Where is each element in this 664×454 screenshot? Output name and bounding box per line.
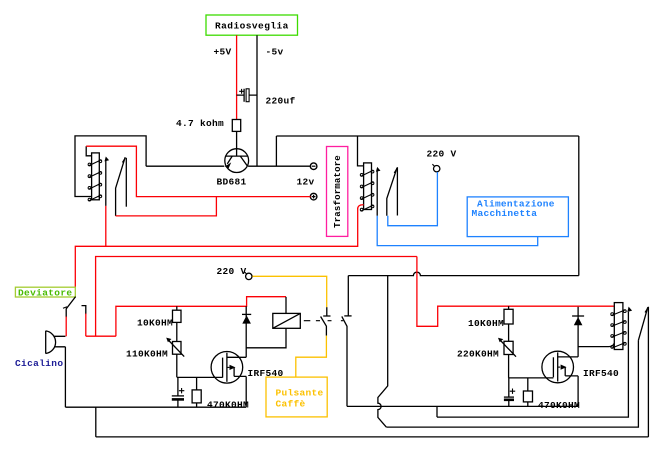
relay RL1 coil (top left) — [86, 146, 102, 201]
svg-text:IRF540: IRF540 — [583, 368, 619, 379]
wire blue contact to Alimentazione box — [377, 216, 538, 246]
relay RL3 contact arrow — [627, 307, 632, 312]
box Alimentazione Macchinetta — [467, 197, 568, 237]
svg-text:10K0HM: 10K0HM — [468, 318, 504, 329]
svg-text:220K0HM: 220K0HM — [457, 348, 499, 359]
wire relay coil left loop — [75, 136, 146, 197]
wire big box bottom edge with hop — [348, 272, 579, 276]
terminal minus 12v — [310, 163, 317, 170]
wire +5V red vertical — [236, 35, 238, 119]
svg-text:220uf: 220uf — [266, 96, 296, 107]
relay RL1 switch throw — [125, 158, 127, 207]
wire blue switch arm to 220V terminal — [388, 172, 438, 226]
svg-text:470K0HM: 470K0HM — [538, 400, 580, 411]
wire red relay common down — [105, 206, 107, 246]
wire bus2 to right relay arm — [386, 340, 638, 427]
potentiometer R3 110K0HM — [166, 338, 184, 378]
transistor Q1 BD681 — [225, 149, 249, 173]
relay RL3 coil right — [611, 303, 626, 350]
linkage dashed relay to contacts — [304, 320, 344, 322]
deviatore switch arm — [63, 297, 76, 318]
svg-text:10K0HM: 10K0HM — [137, 318, 173, 329]
wire red node rail y336 — [86, 335, 116, 337]
svg-text:Trasformatore: Trasformatore — [333, 155, 343, 228]
wire yellow 220V to switch SW1 — [252, 276, 326, 307]
box Deviatore — [15, 287, 75, 298]
wire drain riser left — [245, 306, 247, 357]
wire big box right edge — [578, 136, 580, 276]
wire gate rail left — [177, 376, 223, 378]
wire red transformer coil exit — [358, 205, 364, 209]
terminal 220V top — [432, 164, 440, 172]
buzzer Cicalino — [46, 331, 66, 354]
wire bottom bus — [96, 436, 649, 438]
svg-text:12v: 12v — [297, 177, 315, 188]
svg-text:Radiosveglia: Radiosveglia — [215, 21, 289, 32]
wire red mains rail upper — [75, 208, 357, 288]
resistor R2 10K0HM left — [173, 306, 182, 341]
transformer contact arrow — [376, 167, 381, 216]
resistor R4 470K0HM left — [192, 377, 201, 407]
svg-text:Pulsante: Pulsante — [276, 387, 324, 398]
wire right ground rail A — [347, 405, 578, 407]
resistor R5 10K0HM right — [504, 306, 513, 341]
box Radiosveglia — [206, 15, 298, 35]
wire red deviatore arm to buzzer — [65, 317, 67, 337]
relay RL3 switch arm — [638, 307, 647, 340]
svg-text:110K0HM: 110K0HM — [126, 348, 168, 359]
svg-text:+5V: +5V — [214, 47, 232, 58]
wire big box left edge to transformer — [358, 136, 364, 166]
diode D2 flyback left — [242, 314, 251, 323]
wire ground drop to bottom bus — [95, 407, 97, 437]
wire red mains to right subcircuit — [417, 257, 614, 327]
svg-text:Caffè: Caffè — [276, 398, 306, 409]
terminal plus 12v — [310, 193, 317, 200]
resistor R1 4.7 kohm — [232, 120, 240, 132]
wire big box drop zigzag to bus2 — [378, 276, 388, 428]
wire left ground rail — [65, 406, 246, 408]
transformer primary coil — [360, 163, 374, 211]
wire vertical up from collector node — [275, 136, 277, 166]
wire bus1 to right relay contact — [437, 312, 628, 417]
wire source to ground right — [577, 376, 579, 407]
wire main horizontal left of transistor — [146, 165, 224, 167]
terminal 220V left — [245, 272, 253, 280]
wire source to ground left — [245, 376, 247, 407]
wire drain riser right — [577, 307, 579, 357]
deviatore throw contact hook — [82, 306, 86, 315]
relay RL2 coil box — [246, 297, 300, 348]
capacitor C3 electrolytic right — [504, 378, 515, 407]
wire red riser to gate divider rail — [116, 297, 286, 337]
wire top rail to big box — [276, 135, 578, 137]
wire red mains rail lower — [96, 257, 417, 337]
relay RL1 contact common — [105, 157, 110, 206]
svg-text:Cicalino: Cicalino — [15, 358, 63, 369]
diode D3 flyback right — [572, 316, 584, 325]
capacitor C1 220uf — [237, 89, 257, 102]
wire rail A step down to bus1 — [436, 406, 438, 417]
svg-text:-5v: -5v — [266, 47, 284, 58]
mosfet U2 IRF540 right — [542, 351, 578, 383]
wire main horizontal right of transistor — [248, 165, 311, 167]
svg-text:Deviatore: Deviatore — [18, 287, 72, 298]
wire yellow SW1 to Pulsante box — [296, 336, 327, 378]
wire red branch to relay arm — [116, 197, 217, 216]
svg-text:Macchinetta: Macchinetta — [472, 208, 538, 219]
box Trasformatore — [327, 147, 348, 237]
wire buzzer ground down — [64, 347, 66, 407]
wire resistor to transistor base — [236, 131, 238, 156]
transformer switch arm — [387, 168, 397, 216]
svg-text:4.7 kohm: 4.7 kohm — [176, 118, 224, 129]
relay RL3 switch throw — [647, 307, 649, 437]
wire red deviatore throw down — [85, 314, 87, 337]
wire big box left drop to switch — [347, 276, 349, 316]
wire gate rail right — [509, 377, 554, 379]
relay RL1 switch arm — [116, 157, 126, 216]
svg-text:BD681: BD681 — [217, 177, 247, 188]
transformer switch throw — [396, 167, 398, 215]
svg-text:220 V: 220 V — [427, 149, 457, 160]
wire red 12v rail top — [86, 146, 311, 196]
wire right relay coil bottom lead — [578, 344, 614, 347]
svg-text:470K0HM: 470K0HM — [207, 399, 249, 410]
switch SW2 relay contact (mains line) — [342, 316, 352, 407]
switch SW1 relay contact (pulsante line) — [321, 307, 331, 336]
wire -5v black vertical — [256, 35, 258, 166]
capacitor C2 electrolytic left — [172, 377, 185, 407]
potentiometer R6 220K0HM — [498, 338, 516, 378]
svg-text:220 V: 220 V — [217, 266, 247, 277]
box Pulsante Caffe — [266, 377, 327, 417]
mosfet U1 IRF540 left — [211, 352, 246, 384]
resistor R7 470K0HM right — [523, 378, 532, 407]
